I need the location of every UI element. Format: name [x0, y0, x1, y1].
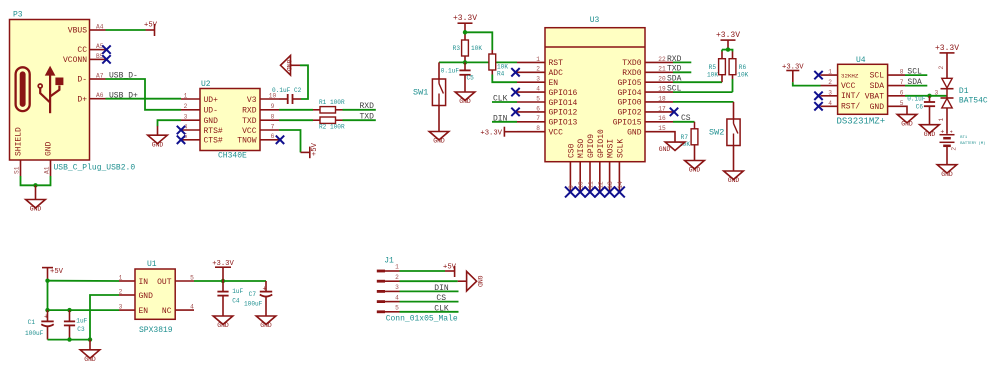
wire SW1 to ground	[438, 106, 440, 132]
svg-text:32KHZ: 32KHZ	[841, 73, 859, 80]
U2 ground stub	[157, 126, 159, 135]
svg-text:1: 1	[119, 274, 123, 281]
svg-text:21: 21	[658, 66, 666, 73]
svg-text:GPIO14: GPIO14	[549, 99, 578, 108]
no-connect on U3 pin 9	[565, 187, 576, 198]
U3 pin 14 (SCLK)	[618, 162, 620, 192]
svg-text:GND: GND	[84, 356, 96, 363]
P3 pin A4	[90, 29, 106, 31]
SW1 top pin	[438, 62, 440, 79]
resistor R4	[489, 54, 496, 70]
U4 pin 3 (INT/)	[821, 95, 838, 97]
junction VBAT/C6	[927, 94, 931, 98]
J1 pin 5	[377, 310, 385, 313]
wire U2 TXD to R2	[279, 119, 313, 121]
svg-text:C7: C7	[249, 291, 257, 298]
wire RXD0 to TXD label	[673, 71, 691, 73]
resistor R1	[313, 109, 320, 111]
svg-text:5: 5	[900, 100, 904, 107]
svg-text:S1: S1	[13, 166, 20, 174]
svg-text:GPIO5: GPIO5	[617, 79, 641, 88]
wire ground rail	[48, 339, 91, 341]
svg-text:6: 6	[536, 105, 540, 112]
J1 pin 3	[377, 290, 385, 293]
wire U4 SDA	[905, 85, 927, 87]
no-connect on P3 VCONN	[102, 55, 110, 63]
D1 to battery wire	[946, 108, 948, 134]
ground symbol below U1	[80, 350, 100, 358]
U3 pin 21 (RXD0)	[645, 71, 673, 73]
svg-text:GND: GND	[627, 129, 642, 138]
svg-text:D+: D+	[77, 95, 87, 104]
R3 bottom lead	[464, 56, 466, 62]
svg-text:+5V: +5V	[50, 268, 64, 276]
svg-text:C6: C6	[916, 104, 924, 111]
svg-text:+3.3V: +3.3V	[716, 31, 740, 40]
U3 pin 13 (MOSI)	[609, 162, 611, 192]
svg-text:GPIO16: GPIO16	[549, 89, 578, 98]
ground symbol below C4	[213, 316, 233, 324]
svg-text:100uF: 100uF	[25, 330, 44, 337]
svg-text:GND: GND	[152, 141, 164, 148]
svg-text:2: 2	[828, 79, 832, 86]
capacitor C4	[222, 281, 224, 292]
svg-text:R7: R7	[681, 134, 689, 141]
U3 pin 5 (GPIO14)	[517, 101, 545, 103]
wire C2 to ground	[300, 65, 308, 99]
junction +3.3V / R4 branch	[463, 30, 467, 34]
svg-text:RXD: RXD	[360, 102, 375, 111]
P3 USB-C receptacle icon	[16, 67, 30, 111]
wire USB_D- from P3 D- to U2 UD-	[106, 79, 182, 110]
resistor R7	[694, 122, 696, 129]
svg-text:GND: GND	[924, 131, 936, 138]
svg-text:U4: U4	[856, 56, 866, 65]
no-connect on U3 pin 12	[594, 187, 605, 198]
IC U2 body	[200, 89, 260, 151]
svg-text:GND: GND	[204, 117, 219, 126]
switch SW2	[727, 119, 740, 146]
U3 pin 2 (ADC)	[517, 71, 545, 73]
svg-text:1: 1	[828, 69, 832, 76]
wire USB_D+ from P3 D+ to U2 UD+	[106, 98, 182, 100]
U1 pin 4 (NC)	[175, 309, 194, 311]
svg-text:5: 5	[190, 274, 194, 281]
svg-text:0.1uF C2: 0.1uF C2	[272, 87, 302, 94]
U3 pin 8 (VCC)	[517, 131, 545, 133]
U3 pin 15 (GND)	[645, 131, 673, 133]
ground symbol below P3	[26, 200, 46, 208]
svg-text:16: 16	[658, 115, 666, 122]
U3 pin 4 (GPIO16)	[517, 91, 545, 93]
P3 pin S1 (SHIELD)	[20, 160, 22, 176]
svg-text:GND: GND	[941, 171, 953, 178]
U1 pin 3 (EN)	[119, 309, 135, 311]
U3 pin 10 (MISO)	[579, 162, 581, 192]
wire GPIO5 to R5 (SDA)	[673, 81, 722, 83]
svg-text:MOSI: MOSI	[607, 139, 616, 158]
U3 pin 19 (GPIO4)	[645, 91, 673, 93]
svg-text:SW2: SW2	[709, 128, 724, 138]
resistor R5	[719, 59, 726, 75]
U3 pin 1 (RST)	[517, 61, 545, 63]
wire J1 pin1 to +5V	[400, 270, 446, 272]
svg-text:R1 100R: R1 100R	[319, 99, 345, 106]
svg-text:A7: A7	[96, 72, 104, 79]
svg-text:ADC: ADC	[549, 69, 564, 78]
svg-text:R5: R5	[709, 64, 717, 71]
svg-text:BATTERY (M): BATTERY (M)	[960, 141, 985, 146]
svg-text:C5: C5	[467, 75, 475, 82]
wire GPIO0 to SW2	[673, 101, 734, 103]
wire +5V to U1 IN	[48, 280, 120, 282]
svg-text:VBAT: VBAT	[865, 92, 884, 101]
U2 pin 7 (VCC)	[260, 129, 279, 131]
svg-text:U1: U1	[147, 260, 157, 269]
ground symbol at U3 GND	[665, 142, 685, 150]
svg-text:1uF: 1uF	[232, 288, 243, 295]
svg-text:GND: GND	[728, 177, 740, 184]
wire GPIO4 to R6 (SCL)	[673, 91, 733, 93]
no-connect on U3 pin 10	[575, 187, 586, 198]
svg-text:CH340E: CH340E	[218, 152, 247, 161]
svg-text:2: 2	[938, 66, 945, 70]
svg-text:C4: C4	[232, 297, 240, 304]
svg-text:2: 2	[395, 274, 399, 281]
switch SW1	[432, 79, 445, 106]
svg-text:C3: C3	[77, 326, 85, 333]
U3 pin 9 (CS0)	[569, 162, 571, 192]
ground symbol below C5	[455, 92, 475, 100]
IC U4 body	[838, 64, 888, 114]
battery to ground wire	[946, 146, 948, 165]
wire R2 to TXD label	[343, 119, 376, 121]
IC U1 body	[135, 269, 175, 319]
wire to R4 top	[465, 32, 492, 50]
svg-text:+5V: +5V	[443, 263, 457, 271]
svg-text:GND: GND	[659, 146, 671, 153]
U2 pin 2 (UD-)	[181, 109, 200, 111]
wire R7 to ground	[694, 145, 696, 161]
svg-text:VCC: VCC	[841, 82, 856, 91]
wire +5V down to EN rail	[47, 281, 49, 310]
svg-text:7: 7	[271, 123, 275, 130]
R6 top lead	[732, 52, 734, 59]
diode D1 BAT54C	[942, 78, 952, 88]
svg-text:GPIO2: GPIO2	[617, 109, 641, 118]
svg-text:3: 3	[395, 284, 399, 291]
svg-text:J1: J1	[384, 257, 394, 266]
resistor R3	[462, 40, 469, 56]
U1 pin 1 (IN)	[119, 280, 135, 282]
svg-text:10K: 10K	[707, 71, 718, 78]
U4 pin 1 (32KHZ)	[821, 74, 838, 76]
svg-text:P3: P3	[13, 11, 23, 20]
svg-text:R6: R6	[739, 64, 747, 71]
svg-text:6: 6	[271, 133, 275, 140]
U3 pin 12 (GPIO10)	[599, 162, 601, 192]
ground symbol at J1 (pointing right)	[467, 271, 477, 291]
wire R1 to RXD label	[343, 109, 376, 111]
wire U1 GND pin to rail	[90, 295, 119, 340]
svg-text:1: 1	[938, 118, 945, 122]
svg-text:TNOW: TNOW	[237, 137, 256, 146]
capacitor C5	[464, 62, 466, 70]
svg-text:GND: GND	[901, 121, 913, 128]
svg-text:SPX3819: SPX3819	[139, 326, 173, 335]
svg-text:Conn_01x05_Male: Conn_01x05_Male	[386, 315, 458, 324]
svg-text:EN: EN	[549, 79, 559, 88]
svg-text:D1: D1	[959, 87, 969, 96]
svg-text:TXD: TXD	[360, 113, 375, 122]
svg-text:5: 5	[536, 95, 540, 102]
svg-text:GPIO13: GPIO13	[549, 119, 578, 128]
svg-text:UD-: UD-	[204, 107, 218, 116]
svg-text:GND: GND	[45, 141, 54, 156]
wire U2 VCC to +5V	[279, 130, 301, 152]
svg-text:CS0: CS0	[567, 143, 576, 158]
svg-text:3: 3	[184, 114, 188, 121]
svg-text:NC: NC	[162, 307, 172, 316]
U2 pin 1 (UD+)	[181, 98, 200, 100]
U3 pin 7 (GPIO13)	[517, 121, 545, 123]
svg-text:SCLK: SCLK	[616, 139, 625, 158]
wire DIN to GPIO13	[492, 121, 517, 123]
svg-text:18: 18	[658, 95, 666, 102]
svg-text:1: 1	[395, 264, 399, 271]
no-connect on U3 pin 13	[604, 187, 615, 198]
svg-text:5: 5	[395, 305, 399, 312]
wire +3.3V to R6 corner	[728, 50, 733, 52]
svg-text:2: 2	[536, 66, 540, 73]
wire +3.3V to U4 VCC	[793, 82, 821, 85]
svg-text:+3.3V: +3.3V	[453, 14, 477, 23]
svg-text:17: 17	[658, 105, 666, 112]
svg-text:GND: GND	[689, 167, 701, 174]
no-connect on U2 RTS#	[177, 126, 185, 134]
svg-text:RXD0: RXD0	[622, 69, 641, 78]
R4 top lead	[491, 50, 493, 54]
wire TXD0 to RXD label	[673, 61, 691, 63]
P3 pin A6	[90, 98, 106, 100]
P3 USB trident icon	[40, 74, 59, 113]
svg-text:VCONN: VCONN	[63, 56, 87, 65]
svg-text:A4: A4	[96, 23, 104, 30]
svg-text:D-: D-	[77, 76, 87, 85]
svg-text:1: 1	[184, 92, 188, 99]
svg-text:R4: R4	[497, 70, 505, 77]
svg-text:6: 6	[900, 89, 904, 96]
svg-text:7: 7	[536, 115, 540, 122]
svg-text:U3: U3	[590, 16, 600, 25]
U2 pin 9 (RXD)	[260, 109, 279, 111]
svg-text:8: 8	[900, 69, 904, 76]
R5/R6 supply stub	[727, 40, 729, 50]
svg-text:1uF: 1uF	[76, 317, 87, 324]
wire U2 RXD to R1	[279, 109, 313, 111]
svg-text:4: 4	[190, 304, 194, 311]
ground symbol below R7	[685, 161, 705, 169]
junction ground rail at C3	[67, 337, 71, 341]
svg-text:MISO: MISO	[577, 139, 586, 158]
junction P3 ground	[33, 183, 37, 187]
power symbol +5V (J1)	[445, 270, 455, 272]
svg-text:4: 4	[536, 86, 540, 93]
svg-text:TXD0: TXD0	[622, 59, 641, 68]
U3 pin 18 (GPIO0)	[645, 101, 673, 103]
no-connect on U3 pin 14	[614, 187, 625, 198]
junction OUT/+3.3V/C4	[221, 279, 225, 283]
U2 pin 3 (GND)	[181, 119, 200, 121]
svg-text:EN: EN	[139, 307, 149, 316]
svg-text:V3: V3	[247, 96, 257, 105]
svg-text:GPIO0: GPIO0	[617, 99, 641, 108]
svg-text:GPIO10: GPIO10	[597, 129, 606, 158]
R4 bottom lead	[491, 70, 493, 75]
svg-text:8: 8	[536, 125, 540, 132]
power symbol +5V (U1 IN)	[42, 267, 53, 269]
svg-text:3: 3	[119, 304, 123, 311]
R5 top lead	[721, 52, 723, 59]
wire CLK to GPIO14	[492, 101, 517, 103]
junction RST/R3/C5	[463, 60, 467, 64]
svg-text:A6: A6	[96, 92, 104, 99]
svg-text:SHIELD: SHIELD	[15, 127, 24, 156]
U1 pin 2 (GND)	[119, 294, 135, 296]
capacitor C3	[69, 310, 71, 321]
svg-text:R2 100R: R2 100R	[319, 124, 345, 131]
U2 pin 6 (TNOW)	[260, 139, 279, 141]
ground symbol below SW1	[429, 132, 449, 140]
no-connect on U4 INT/	[814, 92, 822, 100]
wire SHIELD to GND	[21, 176, 51, 185]
svg-text:2: 2	[184, 103, 188, 110]
svg-text:4: 4	[828, 100, 832, 107]
U2 pin 4 (RTS#)	[181, 129, 200, 131]
ground symbol at C2 (pointing left)	[281, 56, 291, 76]
svg-text:9: 9	[271, 103, 275, 110]
svg-text:4: 4	[395, 294, 399, 301]
J1 pin 2	[377, 280, 385, 283]
P3 pin A1 (GND)	[50, 160, 52, 176]
U1 ground stub	[89, 340, 91, 350]
svg-text:GND: GND	[217, 322, 229, 329]
svg-text:15: 15	[658, 125, 666, 132]
svg-text:C1: C1	[28, 319, 36, 326]
C2 ground stub	[291, 64, 301, 66]
svg-text:OUT: OUT	[157, 278, 172, 287]
wire VBUS to +5V	[106, 29, 146, 31]
U4 pin 4 (RST/)	[821, 105, 838, 107]
P3 ground stub	[35, 185, 37, 199]
J1 pin 1	[377, 270, 385, 273]
wire RST net	[439, 61, 517, 63]
U3 pin 20 (GPIO5)	[645, 81, 673, 83]
junction R5/R6 tops	[726, 47, 730, 51]
svg-text:A1: A1	[43, 166, 50, 174]
power symbol +5V (P3 VBUS)	[146, 29, 155, 31]
svg-text:22: 22	[658, 56, 666, 63]
svg-text:+5V: +5V	[311, 142, 319, 156]
P3 pin B5	[90, 58, 106, 60]
svg-text:3: 3	[935, 89, 939, 96]
wire U3 GND pin down	[673, 132, 675, 142]
svg-text:BT1: BT1	[960, 136, 968, 140]
ground symbol below C7	[256, 316, 276, 324]
wire R5 top tie	[722, 49, 728, 51]
svg-text:GPIO4: GPIO4	[617, 89, 641, 98]
wire SW2 to ground	[733, 146, 735, 172]
D1 anode wire from +3.3V	[946, 53, 948, 78]
capacitor C6	[929, 96, 931, 102]
svg-text:RTS#: RTS#	[204, 127, 223, 136]
svg-text:GND: GND	[285, 60, 292, 72]
P3 pin A7	[90, 78, 106, 80]
svg-text:0.1uF: 0.1uF	[441, 68, 460, 75]
wire EN rail	[48, 309, 120, 311]
ground symbol at U2 GND	[148, 135, 168, 143]
wire U1 OUT to +3.3V/C4/C7	[194, 280, 266, 282]
svg-text:8: 8	[271, 114, 275, 121]
svg-text:VCC: VCC	[549, 129, 564, 138]
svg-text:GND: GND	[476, 275, 483, 287]
wire U4 VBAT to D1/C6	[905, 95, 947, 97]
R5 bottom lead	[721, 75, 723, 83]
U3 pin 22 (TXD0)	[645, 61, 673, 63]
ground symbol below C6	[920, 125, 940, 133]
R3 top stub	[464, 23, 466, 30]
U3 pin 6 (GPIO12)	[517, 111, 545, 113]
svg-text:CTS#: CTS#	[204, 137, 223, 146]
svg-text:3: 3	[828, 89, 832, 96]
wire U2 GND pin to ground	[158, 120, 182, 126]
svg-text:IN: IN	[139, 278, 149, 287]
svg-text:GPIO15: GPIO15	[613, 119, 642, 128]
no-connect on U3 GPIO12	[511, 108, 519, 116]
svg-text:10K: 10K	[471, 45, 482, 52]
svg-text:19: 19	[658, 86, 666, 93]
U3 pin 3 (EN)	[517, 81, 545, 83]
power symbol +3.3V (U1 OUT)	[215, 266, 231, 268]
U4 pin 6 (VBAT)	[888, 95, 905, 97]
junction +5V/IN	[45, 279, 49, 283]
U3 pin 11 (GPIO9)	[589, 162, 591, 192]
capacitor C1	[47, 310, 49, 321]
junction EN rail at C1	[45, 308, 49, 312]
J1 ground stub	[458, 280, 467, 282]
ground symbol below BT1	[937, 165, 957, 173]
svg-text:0.1uF: 0.1uF	[907, 96, 926, 103]
wire GPIO15 to R7 (CS)	[673, 121, 695, 123]
U3 pin 17 (GPIO2)	[645, 111, 673, 113]
svg-text:GPIO9: GPIO9	[587, 134, 596, 158]
svg-text:U2: U2	[201, 80, 211, 89]
svg-text:DS3231MZ+: DS3231MZ+	[837, 117, 886, 127]
ground symbol below SW2	[724, 171, 744, 179]
svg-text:UD+: UD+	[204, 96, 219, 105]
no-connect on U2 CTS#	[177, 136, 185, 144]
svg-text:GND: GND	[870, 103, 885, 112]
wire J1 pin4 CS	[400, 301, 459, 303]
svg-text:+3.3V: +3.3V	[212, 260, 234, 268]
svg-text:SDA: SDA	[870, 82, 885, 91]
svg-text:2: 2	[119, 288, 123, 295]
no-connect on U2 TNOW	[276, 136, 284, 144]
svg-text:GND: GND	[139, 292, 154, 301]
resistor R6	[729, 59, 736, 75]
power symbol +3.3V (above R5/R6)	[721, 39, 736, 41]
wire U4 GND pin down	[905, 106, 907, 114]
